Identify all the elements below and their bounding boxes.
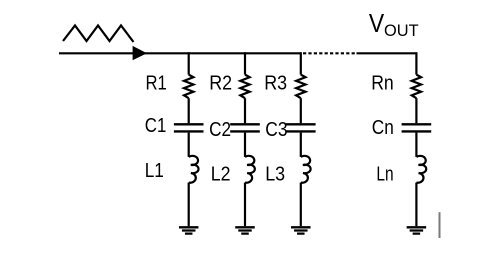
svg-text:C3: C3 [265, 118, 287, 140]
svg-text:L1: L1 [145, 159, 164, 181]
svg-text:C2: C2 [209, 118, 231, 141]
svg-text:V: V [369, 10, 385, 39]
svg-text:C1: C1 [145, 114, 167, 137]
svg-text:Rn: Rn [371, 71, 394, 93]
svg-text:Ln: Ln [376, 162, 393, 184]
svg-text:Cn: Cn [372, 116, 394, 139]
svg-text:R3: R3 [264, 72, 287, 94]
svg-text:OUT: OUT [384, 22, 419, 40]
svg-text:R1: R1 [146, 71, 167, 94]
svg-text:R2: R2 [209, 72, 232, 94]
svg-text:L2: L2 [211, 163, 231, 185]
svg-text:L3: L3 [265, 164, 285, 186]
